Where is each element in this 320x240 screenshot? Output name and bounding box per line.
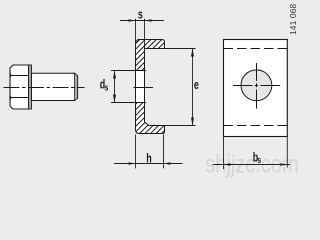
dimension e line — [192, 49, 194, 126]
plan view hidden edge (top dashed) — [224, 48, 288, 50]
section bar inner vertical edge through bore — [144, 49, 146, 123]
bolt shank — [32, 73, 78, 100]
plan view rectangle — [224, 40, 288, 137]
dimension h line — [114, 163, 183, 165]
bolt head facet lines — [10, 76, 32, 98]
dimension ds arrows — [113, 71, 116, 79]
svg-text:s: s — [257, 155, 261, 165]
dimension h extension lines — [136, 135, 164, 169]
section bore (hole) edge lines / ds extension lines — [111, 71, 146, 103]
bolt head corner notches — [9, 73, 12, 100]
bolt head — [10, 65, 32, 109]
bolt washer face (grey strip) — [29, 65, 32, 109]
svg-text:s: s — [105, 82, 109, 92]
dimension bs line — [213, 164, 291, 166]
dimension bs extension lines — [224, 137, 288, 169]
plan view hidden edge (bottom dashed) — [224, 125, 288, 127]
dimension e arrows — [191, 49, 194, 57]
dimension ds line — [114, 71, 116, 103]
bolt centerline — [4, 87, 85, 89]
bore circle horizontal centerline — [233, 85, 280, 87]
dimension bs arrows — [224, 163, 231, 166]
svg-text:h: h — [146, 152, 152, 166]
dimension s line — [120, 20, 164, 22]
dimension h arrows — [129, 162, 136, 165]
bore circle vertical centerline — [256, 63, 258, 109]
section hatching — [128, 36, 170, 137]
dimension s arrows — [129, 19, 136, 22]
dimension e extension lines — [165, 49, 196, 126]
plan view bore circle — [241, 70, 272, 101]
dimension s extension lines — [136, 19, 145, 52]
section bore centerline tick — [134, 87, 154, 89]
section view: nut body outline — [136, 40, 165, 134]
svg-text:141 068: 141 068 — [288, 3, 298, 35]
svg-text:e: e — [194, 79, 199, 93]
svg-text:s: s — [138, 8, 143, 22]
bolt shank end chamfer — [75, 73, 78, 100]
